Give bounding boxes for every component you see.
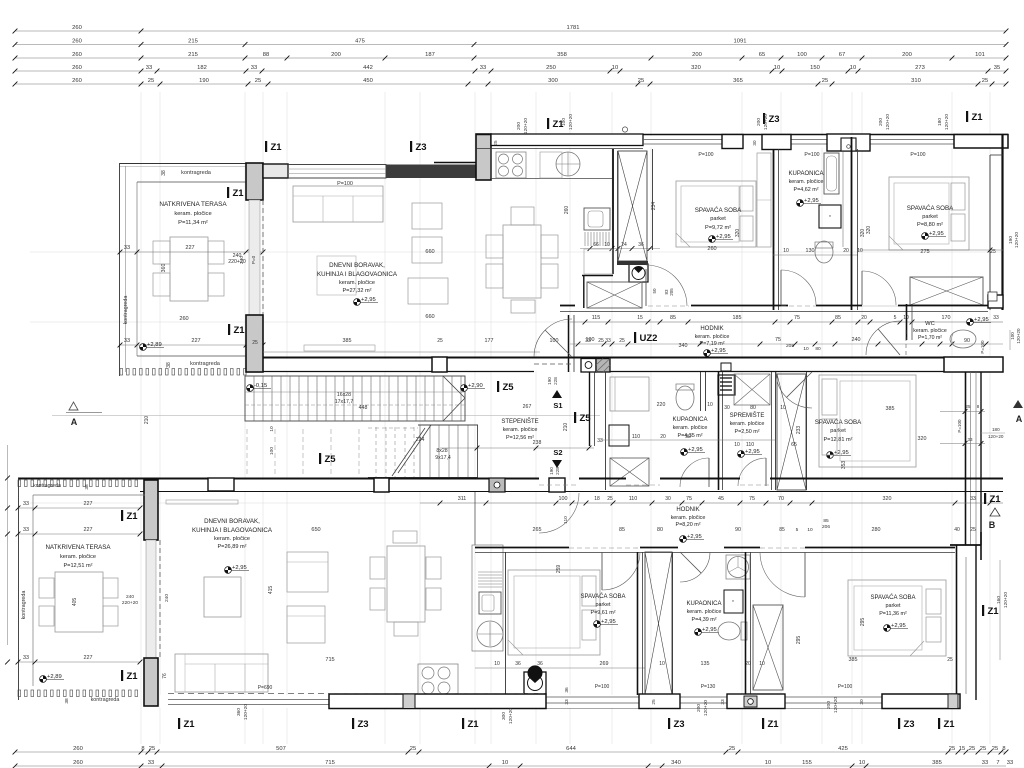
- door arc corridor2 west entry: [539, 493, 579, 533]
- svg-text:Z1: Z1: [234, 325, 246, 336]
- svg-text:7: 7: [996, 760, 999, 766]
- svg-text:365: 365: [733, 78, 743, 84]
- bed bedroom3: [508, 570, 600, 655]
- svg-text:keram. pločice: keram. pločice: [789, 179, 824, 185]
- Z5 label lower right stairs: [574, 412, 576, 423]
- bath1 side strip line: [842, 152, 844, 247]
- svg-text:NATKRIVENA TERASA: NATKRIVENA TERASA: [159, 201, 227, 208]
- right end block corridor top wall: [988, 295, 1003, 308]
- level marker bath1: [797, 198, 821, 206]
- svg-text:67: 67: [839, 52, 845, 58]
- svg-text:1091: 1091: [734, 39, 747, 45]
- svg-text:33: 33: [124, 245, 130, 251]
- svg-text:+2,95: +2,95: [745, 449, 760, 455]
- svg-text:200: 200: [516, 122, 522, 130]
- svg-text:parket: parket: [830, 428, 846, 434]
- svg-text:110: 110: [746, 442, 754, 448]
- svg-text:85: 85: [823, 518, 829, 524]
- small box end of wardrobe: [988, 292, 997, 301]
- column Z1 lower-left: [144, 480, 158, 540]
- svg-text:120+20: 120+20: [988, 434, 1004, 439]
- svg-text:P=12,81 m²: P=12,81 m²: [823, 437, 852, 443]
- svg-text:Z3: Z3: [358, 719, 369, 730]
- level marker +2,89 terrace1: [140, 342, 164, 350]
- lower unit bottom wall thin window lines: [546, 696, 955, 698]
- upper terrace left wall: [119, 163, 121, 376]
- svg-text:220+20: 220+20: [122, 600, 138, 606]
- svg-text:70: 70: [778, 496, 784, 502]
- svg-text:9x17,4: 9x17,4: [435, 455, 451, 461]
- bedroom3 dim row: [475, 667, 645, 669]
- svg-text:295: 295: [796, 636, 802, 645]
- svg-text:269: 269: [600, 661, 609, 667]
- svg-text:Z3: Z3: [769, 114, 780, 125]
- svg-text:10: 10: [612, 65, 618, 71]
- svg-text:715: 715: [325, 760, 335, 766]
- corridor1 dim row: [570, 321, 1003, 323]
- svg-text:267: 267: [523, 404, 532, 410]
- level marker living2: [225, 565, 249, 573]
- svg-text:25: 25: [949, 746, 955, 752]
- svg-text:660: 660: [425, 249, 434, 255]
- svg-text:15: 15: [959, 746, 965, 752]
- level marker bath2: [681, 447, 705, 455]
- svg-text:300: 300: [501, 712, 507, 720]
- Z1 label right edge corridor2: [984, 493, 986, 504]
- svg-text:260: 260: [72, 25, 82, 31]
- svg-text:20: 20: [861, 315, 867, 321]
- level marker terrace2 +2,89: [40, 674, 64, 682]
- svg-text:33: 33: [970, 496, 976, 502]
- top wall solid band kitchen section: [491, 134, 643, 146]
- svg-text:10: 10: [659, 661, 665, 667]
- level marker living room 1: [354, 297, 378, 305]
- counter return below appliance: [584, 249, 613, 274]
- svg-text:25: 25: [255, 78, 261, 84]
- svg-text:Z1: Z1: [468, 719, 480, 730]
- svg-text:110: 110: [629, 496, 638, 502]
- svg-text:170: 170: [942, 315, 951, 321]
- svg-text:25: 25: [822, 78, 828, 84]
- svg-text:100: 100: [559, 496, 568, 502]
- svg-text:8x28: 8x28: [436, 448, 447, 454]
- svg-text:260: 260: [707, 246, 716, 252]
- svg-text:120+20: 120+20: [1016, 328, 1021, 344]
- wall bath1/bedroom2: [851, 137, 853, 310]
- svg-text:190: 190: [547, 377, 552, 385]
- svg-text:10: 10: [780, 405, 786, 411]
- svg-text:S1: S1: [553, 401, 562, 410]
- svg-text:259: 259: [556, 565, 562, 574]
- svg-text:40: 40: [954, 527, 960, 533]
- svg-text:50: 50: [652, 288, 657, 294]
- svg-text:P=1,70 m²: P=1,70 m²: [918, 335, 942, 341]
- svg-text:33: 33: [148, 760, 154, 766]
- svg-text:25: 25: [410, 746, 416, 752]
- bed bedroom mid: [819, 375, 916, 467]
- svg-text:10: 10: [803, 346, 809, 352]
- svg-text:keram. pločice: keram. pločice: [687, 609, 722, 615]
- kitchen corner column top: [476, 134, 491, 180]
- svg-text:16x28: 16x28: [337, 392, 351, 398]
- bedroom1 west wall: [652, 149, 654, 250]
- stair break marker +2,90: [461, 383, 485, 391]
- sofa upper living room: [293, 186, 383, 222]
- svg-text:A: A: [71, 417, 78, 427]
- svg-text:P=100: P=100: [980, 340, 985, 354]
- column block right lower top wall: [549, 478, 565, 492]
- svg-text:+2,95: +2,95: [687, 534, 702, 540]
- svg-text:360: 360: [161, 264, 167, 273]
- svg-text:Z5: Z5: [325, 454, 337, 465]
- svg-text:33: 33: [585, 338, 591, 344]
- svg-text:P=100: P=100: [595, 684, 610, 690]
- svg-text:30: 30: [665, 496, 671, 502]
- svg-text:+2,95: +2,95: [974, 317, 989, 323]
- svg-text:1781: 1781: [567, 25, 580, 31]
- svg-text:234: 234: [651, 202, 657, 211]
- dashed line above bottom wall: [168, 693, 546, 695]
- svg-text:25: 25: [607, 496, 613, 502]
- column block mid lower top wall: [374, 478, 389, 492]
- svg-text:85: 85: [619, 527, 625, 533]
- svg-text:P=100: P=100: [698, 152, 713, 158]
- svg-text:260: 260: [72, 39, 82, 45]
- svg-text:224: 224: [416, 437, 425, 443]
- svg-text:310: 310: [911, 78, 921, 84]
- svg-text:keram. pločice: keram. pločice: [671, 515, 706, 521]
- svg-text:kontragreda: kontragreda: [181, 170, 212, 176]
- svg-text:P=11,36 m²: P=11,36 m²: [879, 611, 907, 617]
- white masks under wall bands: [476, 136, 1008, 148]
- svg-text:120+20: 120+20: [833, 697, 839, 713]
- Z1 label top mid: [547, 118, 549, 129]
- svg-text:kontragreda: kontragreda: [21, 591, 27, 620]
- svg-text:660: 660: [425, 314, 434, 320]
- corner shower bath2: [610, 377, 649, 411]
- svg-text:200: 200: [878, 118, 884, 126]
- svg-text:300: 300: [548, 78, 558, 84]
- svg-text:101: 101: [975, 52, 985, 58]
- svg-text:75: 75: [794, 315, 800, 321]
- left dimension line terrace2: [7, 445, 9, 645]
- svg-text:448: 448: [359, 405, 368, 411]
- wall bath2/spremiste: [718, 372, 720, 490]
- svg-text:507: 507: [276, 746, 286, 752]
- svg-text:120+20: 120+20: [568, 114, 574, 130]
- svg-text:25: 25: [598, 338, 604, 344]
- svg-text:P=0: P=0: [251, 255, 256, 264]
- svg-text:33: 33: [982, 760, 988, 766]
- wardrobe bedroom4 with X: [753, 605, 783, 690]
- svg-text:25: 25: [970, 527, 976, 533]
- lower unit top wall band - segments: [18, 478, 539, 480]
- level marker corridor2: [680, 534, 704, 542]
- kitchen counter upper unit: [491, 178, 612, 180]
- svg-text:Z5: Z5: [503, 382, 515, 393]
- wall bedroom3/shaft3: [637, 552, 639, 695]
- svg-text:10: 10: [859, 760, 865, 766]
- svg-text:P=130: P=130: [701, 684, 716, 690]
- door threshold dashes corridor1: [648, 305, 689, 307]
- stair lower flight dashed hidden treads: [368, 427, 418, 429]
- svg-text:+2,95: +2,95: [702, 627, 717, 633]
- svg-text:265: 265: [533, 527, 542, 533]
- bedroom3 west wall: [505, 552, 507, 695]
- top wall column block 1: [722, 135, 743, 149]
- svg-text:80: 80: [657, 527, 663, 533]
- svg-text:65: 65: [759, 52, 765, 58]
- svg-text:30: 30: [752, 140, 757, 146]
- svg-text:120+20: 120+20: [1003, 592, 1009, 608]
- svg-text:100: 100: [269, 447, 275, 455]
- svg-text:228: 228: [555, 467, 560, 475]
- cross box bottom bath2: [610, 458, 649, 486]
- svg-text:keram. pločice: keram. pločice: [60, 554, 96, 560]
- svg-text:35: 35: [994, 65, 1000, 71]
- bath2 west wall: [605, 372, 607, 490]
- svg-text:120+20: 120+20: [243, 704, 249, 720]
- svg-text:425: 425: [838, 746, 848, 752]
- svg-text:Z1: Z1: [988, 606, 1000, 617]
- mid shaft with X bracing: [777, 374, 806, 490]
- door bedroom3 leaf and arc: [601, 552, 603, 590]
- svg-text:8: 8: [141, 746, 144, 752]
- svg-text:18: 18: [594, 496, 600, 502]
- level marker corridor1: [704, 348, 728, 356]
- svg-text:10: 10: [774, 65, 780, 71]
- right exterior wall mid section: [965, 372, 967, 545]
- living room top wall east segment solid: [386, 165, 476, 179]
- svg-text:182: 182: [197, 65, 207, 71]
- washbasin bath2: [609, 425, 629, 446]
- svg-text:340: 340: [671, 760, 681, 766]
- svg-text:NATKRIVENA TERASA: NATKRIVENA TERASA: [45, 544, 111, 551]
- terrace1 dimension row lower: [120, 344, 263, 346]
- hidden flight below dashed treads: [247, 429, 359, 476]
- svg-text:110: 110: [563, 516, 569, 524]
- svg-text:keram. pločice: keram. pločice: [214, 536, 250, 542]
- svg-text:205: 205: [669, 288, 674, 296]
- svg-text:311: 311: [458, 496, 467, 502]
- big cross box above corridor: [587, 282, 642, 308]
- bottom dimension chain rows: [15, 751, 1006, 753]
- svg-text:UZ2: UZ2: [640, 333, 658, 344]
- stair rail lines upper flight: [245, 391, 465, 393]
- svg-text:Z1: Z1: [233, 188, 245, 199]
- svg-text:*: *: [829, 215, 831, 221]
- toilet bath2: [676, 386, 694, 410]
- svg-text:90: 90: [685, 434, 691, 440]
- svg-text:20: 20: [660, 434, 666, 440]
- svg-text:P=100: P=100: [957, 419, 962, 433]
- wardrobe bedroom2 with X: [910, 277, 983, 305]
- svg-text:10: 10: [857, 248, 863, 254]
- svg-text:155: 155: [802, 760, 812, 766]
- svg-text:130: 130: [806, 248, 815, 254]
- level marker bath3: [695, 627, 719, 635]
- svg-text:33: 33: [23, 501, 29, 507]
- wall spremiste/shaft: [771, 372, 773, 490]
- terrace2 dining table: [55, 572, 103, 632]
- door bath1 leaf and arc: [780, 270, 782, 305]
- svg-text:8: 8: [1002, 746, 1005, 752]
- top exterior wall of upper unit: [476, 134, 1008, 136]
- svg-text:65: 65: [791, 442, 797, 448]
- stove2 bottom with burners: [418, 664, 458, 696]
- gray block with circle in bottom wall: [581, 359, 596, 373]
- svg-text:Z1: Z1: [127, 671, 139, 682]
- door arc living to stairs: [534, 319, 572, 357]
- svg-text:parket: parket: [922, 214, 938, 220]
- kitchen tall cabinet / fridge: [584, 208, 610, 230]
- svg-text:SPREMIŠTE: SPREMIŠTE: [730, 412, 765, 419]
- right exterior wall upper unit: [1001, 134, 1003, 310]
- svg-text:150: 150: [810, 65, 820, 71]
- shaft3 with X: [645, 552, 672, 695]
- Z5 label right of stairs: [497, 381, 499, 392]
- door bedroom4 leaf and arc: [804, 552, 806, 597]
- svg-text:190: 190: [1008, 236, 1014, 244]
- svg-text:100: 100: [797, 52, 807, 58]
- svg-text:KUPAONICA: KUPAONICA: [687, 601, 722, 607]
- svg-text:320: 320: [866, 226, 872, 235]
- svg-text:P=4,39 m²: P=4,39 m²: [691, 617, 716, 623]
- bed bedroom2: [889, 177, 969, 250]
- svg-text:P=27,32 m²: P=27,32 m²: [342, 288, 371, 294]
- svg-text:385: 385: [932, 760, 942, 766]
- faint vertical projection lines: [141, 92, 990, 744]
- stair direction marker S1: [552, 390, 562, 398]
- svg-text:115: 115: [592, 315, 601, 321]
- svg-text:280: 280: [872, 527, 881, 533]
- dining table upper: [503, 225, 541, 298]
- svg-text:Z1: Z1: [768, 719, 780, 730]
- svg-text:190: 190: [199, 78, 209, 84]
- svg-text:25: 25: [148, 78, 154, 84]
- svg-text:320: 320: [691, 65, 701, 71]
- svg-text:260: 260: [72, 65, 82, 71]
- door opening in bottom wall with dashes: [534, 363, 574, 365]
- terrace1 dining table with chairs: [170, 237, 208, 301]
- svg-text:parket: parket: [710, 216, 726, 222]
- svg-text:358: 358: [557, 52, 567, 58]
- svg-text:keram. pločice: keram. pločice: [695, 334, 730, 340]
- Z1 label top far right: [966, 111, 968, 122]
- faint horizontal projection lines: [30, 252, 1003, 503]
- svg-text:keram. pločice: keram. pločice: [503, 427, 538, 433]
- Z3 label top right area: [763, 113, 765, 124]
- svg-text:10: 10: [783, 248, 789, 254]
- svg-text:200: 200: [902, 52, 912, 58]
- svg-text:227: 227: [191, 338, 200, 344]
- svg-text:+2,95: +2,95: [804, 198, 819, 204]
- svg-text:33: 33: [993, 315, 999, 321]
- level marker bedroom4: [884, 623, 908, 631]
- svg-text:Z3: Z3: [674, 719, 685, 730]
- right step wall lower unit: [950, 544, 981, 546]
- toilet niche partition bath2: [700, 372, 702, 411]
- svg-text:S2: S2: [553, 448, 562, 457]
- washbasin bath3: [724, 590, 743, 613]
- svg-text:715: 715: [325, 657, 334, 663]
- wall shaft/bedroom mid: [806, 372, 808, 490]
- svg-text:340: 340: [679, 343, 688, 349]
- level marker bedroom1: [709, 234, 733, 242]
- svg-text:360: 360: [236, 708, 242, 716]
- stove with 4 burners upper kitchen: [496, 152, 526, 178]
- level marker bedroom2: [922, 231, 946, 239]
- svg-text:SPAVAĆA SOBA: SPAVAĆA SOBA: [580, 593, 625, 600]
- svg-text:320: 320: [735, 229, 741, 238]
- terrace2 kontragreda hatch top: [18, 480, 138, 487]
- UZ2 label: [634, 332, 636, 343]
- svg-text:WC: WC: [925, 321, 935, 327]
- svg-text:P=690: P=690: [258, 685, 273, 691]
- vent box above spremiste: [721, 363, 731, 371]
- rug under living room label: [317, 256, 356, 295]
- bath1 dim row: [773, 254, 858, 256]
- svg-text:Z3: Z3: [416, 142, 427, 153]
- kitchen2 sink: [479, 592, 501, 614]
- svg-text:260: 260: [179, 316, 188, 322]
- dining table living2: [387, 546, 425, 622]
- svg-text:Z3: Z3: [904, 719, 915, 730]
- svg-text:76: 76: [162, 673, 168, 679]
- svg-text:405: 405: [72, 598, 78, 607]
- section line A-A: [52, 415, 600, 417]
- svg-text:STEPENIŠTE: STEPENIŠTE: [501, 418, 538, 425]
- wall horizontal below counter: [582, 275, 613, 277]
- svg-text:keram. pločice: keram. pločice: [339, 280, 375, 286]
- svg-text:+2,95: +2,95: [891, 623, 906, 629]
- svg-text:SPAVAĆA SOBA: SPAVAĆA SOBA: [695, 207, 742, 214]
- svg-text:25: 25: [437, 338, 443, 344]
- svg-text:10: 10: [807, 527, 813, 533]
- svg-text:30: 30: [724, 405, 730, 411]
- svg-text:25: 25: [149, 746, 155, 752]
- lower unit inner wall bedroom zone top - segments: [475, 547, 569, 549]
- svg-text:HODNIK: HODNIK: [700, 326, 723, 332]
- svg-text:parket: parket: [596, 602, 611, 608]
- sofa living2 bottom: [175, 654, 268, 692]
- svg-text:38: 38: [161, 170, 167, 176]
- dim row mid rooms: [600, 439, 775, 441]
- svg-text:25: 25: [980, 746, 986, 752]
- svg-text:120+20: 120+20: [523, 118, 529, 134]
- svg-text:475: 475: [355, 39, 365, 45]
- svg-text:66: 66: [593, 242, 599, 248]
- door bedroom1 leaf and arc: [645, 269, 647, 306]
- door bath2 leaf and arc: [708, 458, 710, 487]
- svg-text:kontragreda: kontragreda: [190, 361, 221, 367]
- svg-text:180: 180: [992, 427, 1000, 432]
- svg-text:206: 206: [822, 524, 830, 530]
- svg-text:+2,95: +2,95: [688, 447, 703, 453]
- svg-text:25: 25: [252, 340, 258, 346]
- A marker right edge: [1013, 400, 1023, 408]
- svg-text:Z1: Z1: [271, 142, 283, 153]
- svg-text:240: 240: [126, 594, 134, 600]
- svg-text:227: 227: [84, 501, 93, 507]
- svg-text:120+20: 120+20: [763, 114, 769, 130]
- column block in bottom wall: [432, 357, 447, 372]
- svg-text:187: 187: [425, 52, 435, 58]
- svg-text:15: 15: [637, 315, 643, 321]
- svg-text:A: A: [1016, 414, 1023, 424]
- svg-text:keram. pločice: keram. pločice: [673, 425, 708, 431]
- column Z1 mid-left: [246, 315, 263, 372]
